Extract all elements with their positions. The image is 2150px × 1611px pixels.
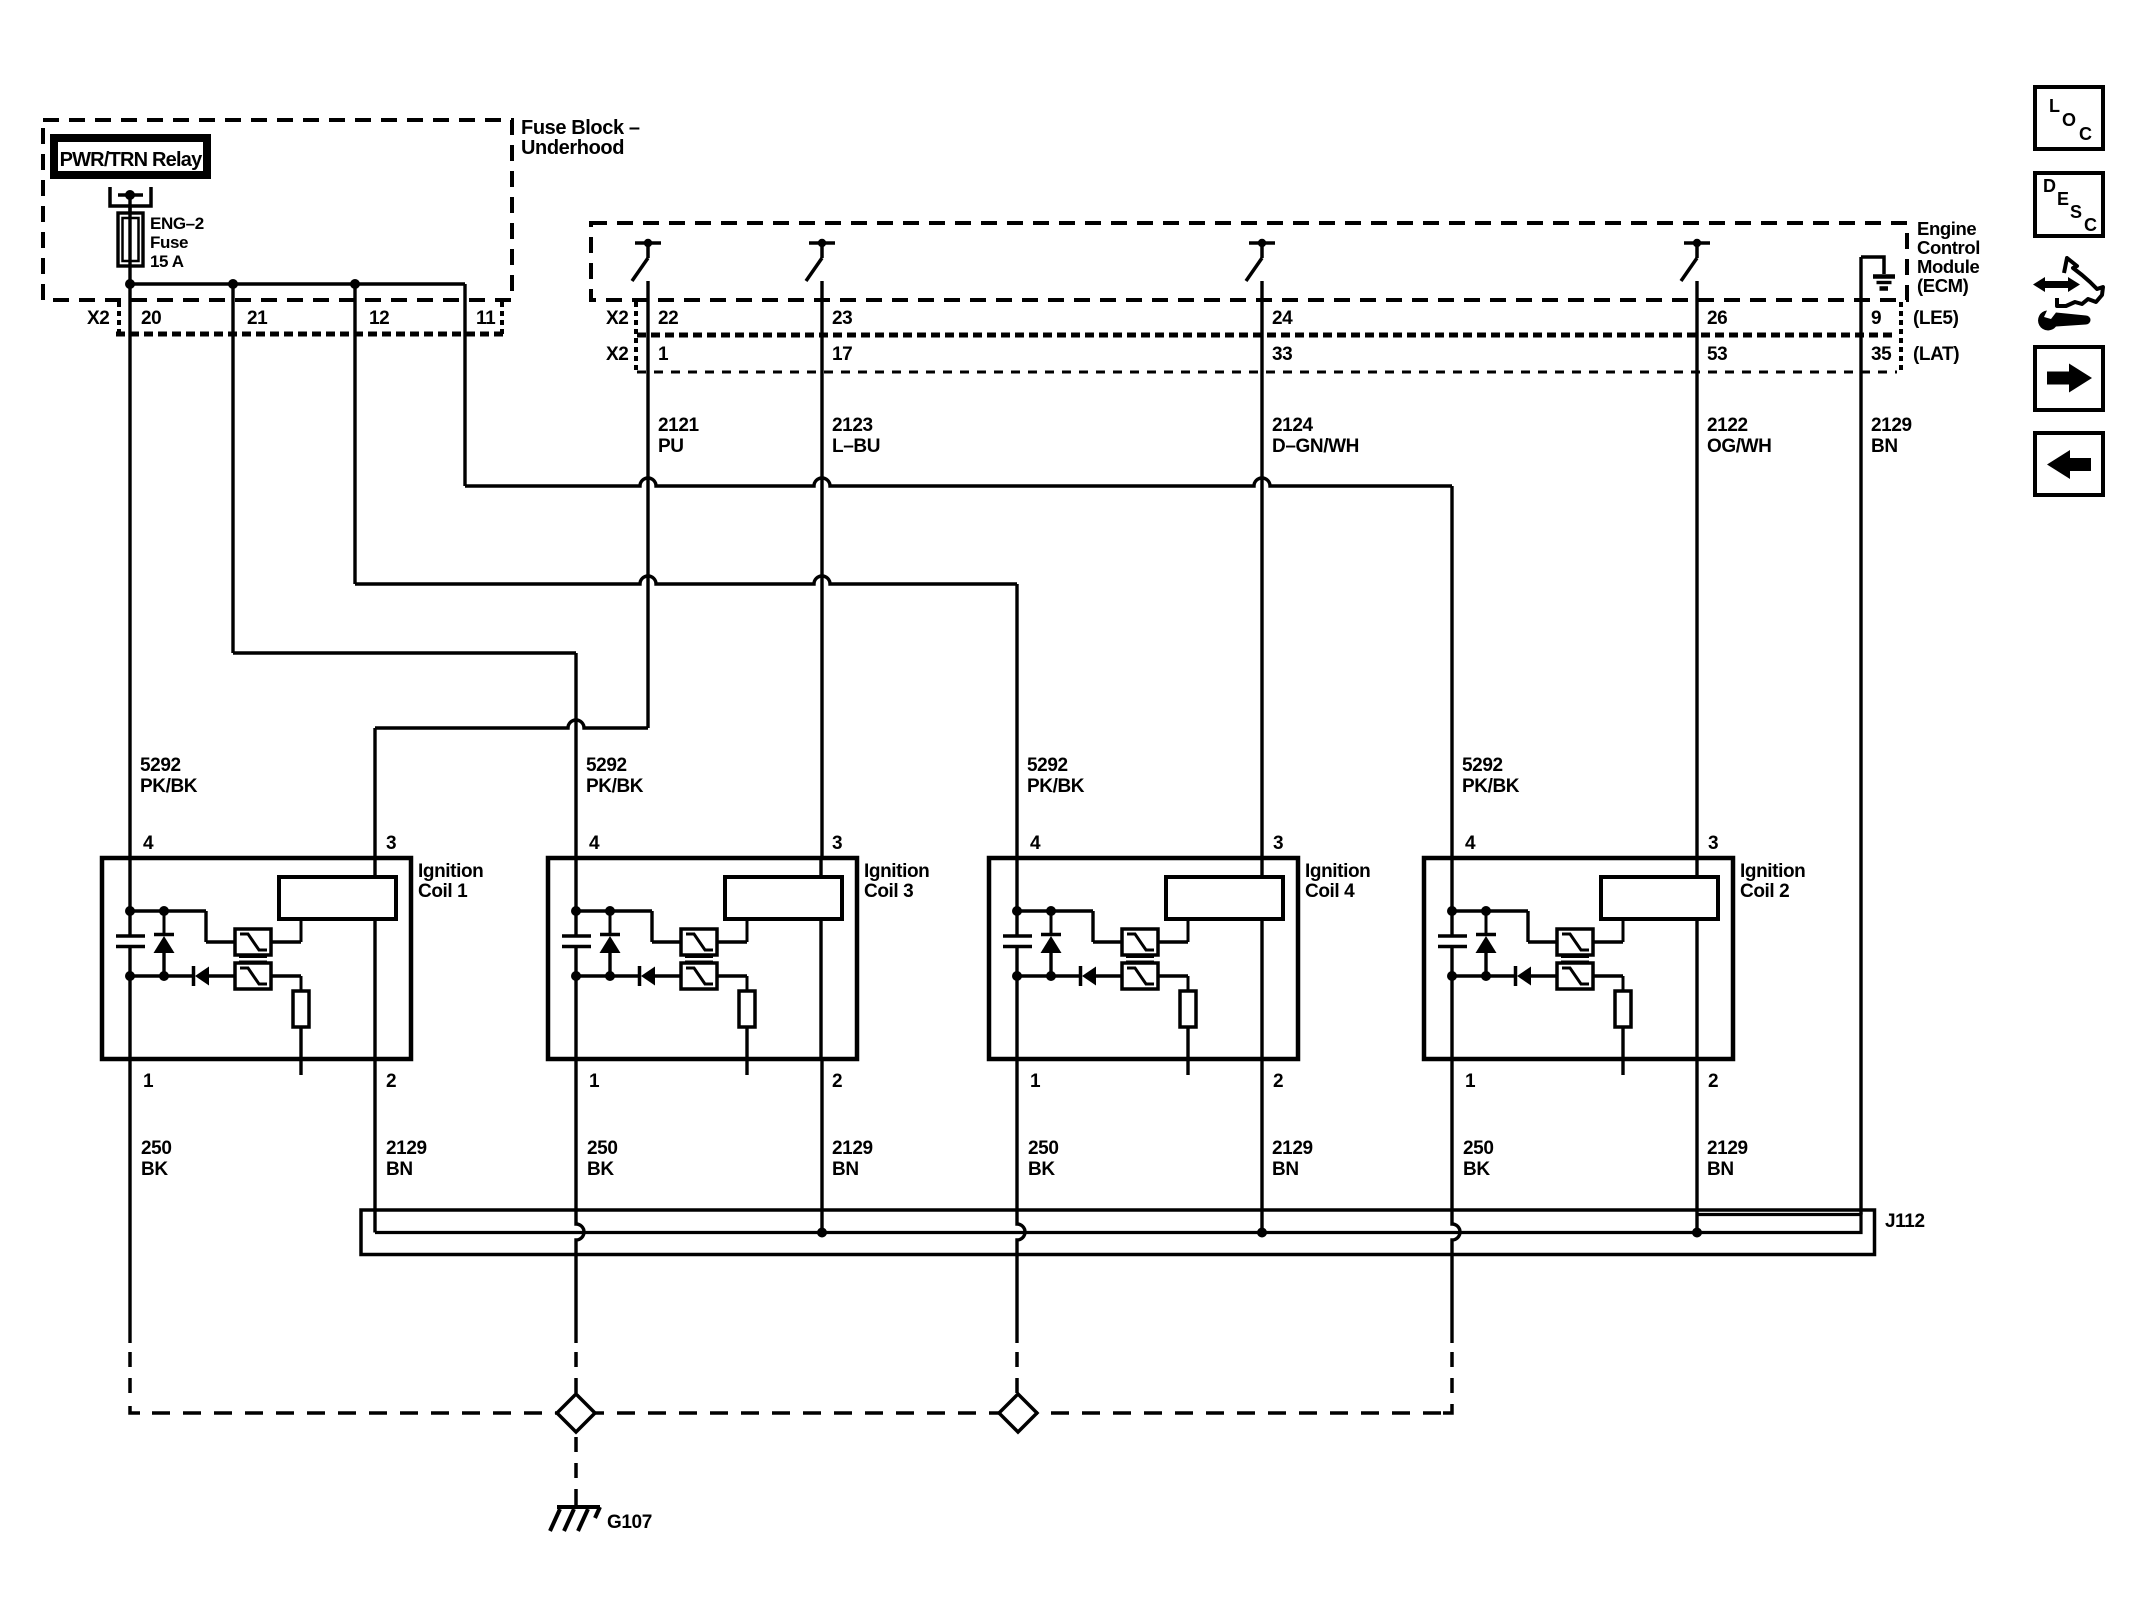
wire: coil 1 pin 1 ground drop	[128, 1059, 131, 1343]
wire 2122 OG/WH from ECM pin 26 to coil 2 pin 3	[1695, 281, 1698, 858]
wire label 5292 PK/BK	[1462, 755, 1520, 797]
svg-text:Ignition: Ignition	[1305, 861, 1370, 882]
svg-text:15 A: 15 A	[150, 252, 184, 271]
svg-text:12: 12	[369, 308, 389, 329]
wire label 2129 BN	[386, 1138, 427, 1180]
primary winding coil 4	[1158, 858, 1283, 942]
svg-text:24: 24	[1272, 308, 1293, 329]
svg-text:2: 2	[386, 1071, 396, 1092]
svg-text:D: D	[2043, 176, 2056, 196]
svg-text:L–BU: L–BU	[832, 436, 880, 457]
connector X2 fuse block row divider	[116, 332, 507, 337]
wire 2124 D-GN/WH from ECM pin 24 to coil 4 pin 3	[1260, 281, 1263, 858]
splice pack J112 inner bus wire	[375, 1215, 1861, 1233]
capacitor C coil 2	[1438, 936, 1467, 976]
svg-text:Ignition: Ignition	[1740, 861, 1805, 882]
svg-text:3: 3	[386, 833, 396, 854]
svg-text:1: 1	[589, 1071, 600, 1092]
svg-text:BK: BK	[1028, 1159, 1055, 1180]
svg-text:BK: BK	[141, 1159, 168, 1180]
svg-text:5292: 5292	[140, 755, 181, 776]
svg-text:Coil 2: Coil 2	[1740, 881, 1789, 902]
svg-text:26: 26	[1707, 308, 1727, 329]
svg-text:C: C	[2084, 215, 2097, 235]
secondary winding output coil 1	[373, 919, 376, 1059]
ECM connector X2 row LAT labels	[606, 344, 1959, 365]
svg-text:D–GN/WH: D–GN/WH	[1272, 436, 1359, 457]
wire: coil 3 pin 2 to splice pack	[820, 1059, 823, 1233]
coupling bars coil 1	[239, 956, 267, 963]
connector X2 separator right	[500, 302, 504, 334]
dashed ground wire from coil 2 pin 1	[1450, 1352, 1454, 1400]
svg-text:(LE5): (LE5)	[1913, 308, 1959, 329]
icon back arrow box	[2035, 433, 2103, 495]
dashed ground corner coil 1	[130, 1406, 140, 1413]
diode D coil 3	[640, 966, 682, 986]
secondary winding output coil 4	[1260, 919, 1263, 1059]
svg-text:2129: 2129	[386, 1138, 427, 1159]
zener diode coil 3	[600, 911, 621, 976]
svg-text:X2: X2	[87, 308, 109, 329]
svg-text:PU: PU	[658, 436, 684, 457]
secondary winding output coil 3	[819, 919, 822, 1059]
opto driver lower coil 4	[1122, 963, 1158, 989]
svg-text:PK/BK: PK/BK	[1027, 776, 1085, 797]
svg-text:5292: 5292	[586, 755, 627, 776]
svg-text:2122: 2122	[1707, 415, 1748, 436]
svg-text:Ignition: Ignition	[418, 861, 483, 882]
ECM connector separator right	[1899, 302, 1903, 372]
svg-text:Module: Module	[1917, 256, 1979, 277]
svg-text:G107: G107	[607, 1512, 652, 1533]
svg-text:35: 35	[1871, 344, 1892, 365]
wire: coil 2 pin 1 ground drop	[1452, 1059, 1460, 1343]
capacitor C coil 1	[116, 936, 145, 976]
wire label 2129 BN	[1707, 1138, 1748, 1180]
wire 2123 L-BU from ECM pin 23 to coil 3 pin 3	[820, 281, 823, 858]
wire: coil 3 pin 1 ground drop	[576, 1059, 584, 1343]
coil 3 internal ground rail	[571, 971, 638, 1059]
icon LOC box	[2035, 87, 2103, 149]
coil 3 internal B+ rail	[571, 858, 652, 936]
wire label 2123 L–BU	[832, 415, 880, 457]
wire: pin 12 drop	[353, 284, 356, 584]
diode D coil 1	[194, 966, 236, 986]
wire label 250 BK	[1028, 1138, 1059, 1180]
fuse block underhood dashed enclosure	[43, 120, 512, 300]
dashed ground corner coil 2	[1443, 1404, 1452, 1413]
svg-text:X2: X2	[606, 308, 628, 329]
svg-text:BK: BK	[1463, 1159, 1490, 1180]
svg-text:O: O	[2062, 110, 2076, 130]
svg-text:J112: J112	[1885, 1211, 1925, 1232]
ECM connector row divider thick	[637, 333, 1897, 338]
dashed ground bus to G107	[152, 1411, 1452, 1415]
wire label 5292 PK/BK	[586, 755, 644, 797]
ignition coil 3 label	[864, 861, 929, 902]
wire: coil 4 pin 2 to splice pack	[1260, 1059, 1263, 1233]
svg-text:BN: BN	[832, 1159, 859, 1180]
fuse ENG-2 15 A	[118, 206, 143, 284]
wire label 250 BK	[141, 1138, 172, 1180]
svg-text:PK/BK: PK/BK	[140, 776, 198, 797]
svg-text:2129: 2129	[1871, 415, 1912, 436]
coil 2 internal ground rail	[1447, 971, 1514, 1059]
opto driver lower coil 3	[681, 963, 717, 989]
svg-text:33: 33	[1272, 344, 1292, 365]
svg-text:2129: 2129	[1707, 1138, 1748, 1159]
coil 4 internal B+ rail	[1012, 858, 1093, 936]
svg-text:Control: Control	[1917, 237, 1980, 258]
wire: coil 4 pin 1 ground drop	[1017, 1059, 1025, 1343]
ECM internal ground symbol at pin 9	[1861, 257, 1895, 289]
node: junction at pin 20	[125, 279, 135, 289]
dashed wire below splice S1	[574, 1437, 578, 1497]
svg-text:C: C	[2079, 124, 2092, 144]
zener diode coil 1	[154, 911, 175, 976]
svg-text:Ignition: Ignition	[864, 861, 929, 882]
wire: feed bus from fuse to pins 20/21/12/11	[130, 282, 465, 285]
capacitor C coil 3	[562, 936, 591, 976]
wire label 2129 BN	[1871, 415, 1912, 457]
svg-text:250: 250	[141, 1138, 172, 1159]
wire label 250 BK	[587, 1138, 618, 1180]
svg-text:3: 3	[1708, 833, 1718, 854]
svg-text:23: 23	[832, 308, 852, 329]
ignition coil 1 label	[418, 861, 483, 902]
svg-text:250: 250	[1028, 1138, 1059, 1159]
ECM driver output pin 22 (switch symbol)	[632, 239, 661, 281]
splice pack J112 outer shell	[361, 1210, 1875, 1255]
svg-text:250: 250	[1463, 1138, 1494, 1159]
wire: pin 21 feed across to coil 3 pin 4	[233, 651, 576, 654]
svg-text:2121: 2121	[658, 415, 700, 436]
wire: pin 12 feed across to coil 4 pin 4	[355, 576, 1017, 584]
wire: coil 1 pin 2 to splice pack	[373, 1059, 376, 1233]
svg-text:4: 4	[1465, 833, 1476, 854]
opto driver lower coil 1	[235, 963, 271, 989]
opto driver lower coil 2	[1557, 963, 1593, 989]
svg-text:4: 4	[143, 833, 154, 854]
svg-text:5292: 5292	[1027, 755, 1068, 776]
svg-text:BK: BK	[587, 1159, 614, 1180]
resistor R coil 2	[1593, 976, 1631, 1075]
ignition coil 1 module box	[102, 858, 411, 1059]
ECM label Engine Control Module	[1917, 218, 1980, 296]
svg-text:ENG–2: ENG–2	[150, 214, 204, 233]
connector X2 separator left	[117, 302, 121, 334]
coil 1 internal ground rail	[125, 971, 192, 1059]
zener diode coil 2	[1476, 911, 1497, 976]
resistor R coil 1	[271, 976, 309, 1075]
relay contact symbol	[110, 187, 151, 213]
opto driver upper coil 1	[206, 911, 271, 955]
node: splice joint coil 3	[817, 1228, 827, 1238]
primary winding coil 3	[717, 858, 842, 942]
svg-text:2129: 2129	[1272, 1138, 1313, 1159]
wire 2121 PU from ECM pin 22	[646, 281, 649, 728]
wire label 2121 PU	[658, 415, 700, 457]
opto driver upper coil 2	[1528, 911, 1593, 955]
svg-text:2124: 2124	[1272, 415, 1314, 436]
fuse value label ENG-2 Fuse 15 A	[150, 214, 204, 271]
ECM connector row divider thin	[637, 371, 1897, 374]
zener diode coil 4	[1041, 911, 1062, 976]
svg-text:20: 20	[141, 308, 161, 329]
wire: pin 11 drop	[463, 284, 466, 486]
svg-text:Coil 4: Coil 4	[1305, 881, 1355, 902]
svg-text:Coil 3: Coil 3	[864, 881, 913, 902]
svg-text:BN: BN	[1871, 436, 1898, 457]
svg-text:2: 2	[1273, 1071, 1283, 1092]
svg-text:17: 17	[832, 344, 852, 365]
svg-text:4: 4	[589, 833, 600, 854]
coupling bars coil 3	[685, 956, 713, 963]
svg-text:OG/WH: OG/WH	[1707, 436, 1772, 457]
wire: pin 20 drop to coil 1 pin 4	[128, 284, 131, 858]
coupling bars coil 2	[1561, 956, 1589, 963]
svg-text:4: 4	[1030, 833, 1041, 854]
svg-text:5292: 5292	[1462, 755, 1503, 776]
svg-text:1: 1	[143, 1071, 154, 1092]
svg-text:11: 11	[476, 308, 496, 329]
icon DESC box	[2035, 173, 2103, 236]
icon forward arrow box	[2035, 347, 2103, 410]
svg-text:2: 2	[832, 1071, 842, 1092]
coupling bars coil 4	[1126, 956, 1154, 963]
dashed ground wire from coil 3 pin 1	[574, 1352, 578, 1394]
svg-text:250: 250	[587, 1138, 618, 1159]
svg-text:21: 21	[247, 308, 268, 329]
ECM connector X2 row LE5 labels	[606, 308, 1959, 329]
svg-text:BN: BN	[1272, 1159, 1299, 1180]
wire label 2124 D–GN/WH	[1272, 415, 1359, 457]
ignition coil 3 module box	[548, 858, 857, 1059]
svg-text:PWR/TRN Relay: PWR/TRN Relay	[60, 149, 204, 171]
wire 2129 BN from ECM pin 9 to splice pack	[1859, 257, 1862, 1215]
coil 2 internal B+ rail	[1447, 858, 1528, 936]
svg-text:3: 3	[1273, 833, 1283, 854]
coil 4 internal ground rail	[1012, 971, 1079, 1059]
wire: coil 2 pin 2 to splice pack	[1695, 1059, 1698, 1233]
wire label 2129 BN	[832, 1138, 873, 1180]
relay K PWR/TRN Relay box	[54, 138, 207, 175]
wire label 2129 BN	[1272, 1138, 1313, 1180]
svg-text:2129: 2129	[832, 1138, 873, 1159]
opto driver upper coil 4	[1093, 911, 1158, 955]
capacitor C coil 4	[1003, 936, 1032, 976]
resistor R coil 3	[717, 976, 755, 1075]
svg-text:S: S	[2070, 202, 2082, 222]
svg-text:1: 1	[658, 344, 669, 365]
ECM driver output pin 24 (switch symbol)	[1246, 239, 1275, 281]
ignition coil 2 label	[1740, 861, 1805, 902]
node: splice joint coil 2	[1692, 1228, 1702, 1238]
svg-text:Coil 1: Coil 1	[418, 881, 468, 902]
svg-text:9: 9	[1871, 308, 1881, 329]
svg-text:L: L	[2049, 96, 2060, 116]
svg-text:3: 3	[832, 833, 842, 854]
ECM dashed enclosure	[591, 223, 1907, 300]
wire label 5292 PK/BK	[1027, 755, 1085, 797]
svg-text:PK/BK: PK/BK	[1462, 776, 1520, 797]
diode D coil 2	[1516, 966, 1558, 986]
svg-text:X2: X2	[606, 344, 628, 365]
svg-text:Fuse Block –: Fuse Block –	[521, 117, 640, 139]
svg-text:22: 22	[658, 308, 678, 329]
node: junction at pin 21	[228, 279, 238, 289]
svg-text:1: 1	[1030, 1071, 1041, 1092]
ignition coil 2 module box	[1424, 858, 1733, 1059]
wire: pin 11 feed across to coil 2 pin 4	[465, 478, 1452, 486]
ground G107 symbol	[550, 1497, 600, 1531]
primary winding coil 2	[1593, 858, 1718, 942]
ECM driver output pin 26 (switch symbol)	[1681, 239, 1710, 281]
svg-text:BN: BN	[386, 1159, 413, 1180]
svg-text:53: 53	[1707, 344, 1727, 365]
svg-text:(LAT): (LAT)	[1913, 344, 1959, 365]
svg-text:2123: 2123	[832, 415, 873, 436]
wire label 250 BK	[1463, 1138, 1494, 1180]
svg-text:(ECM): (ECM)	[1917, 275, 1969, 296]
node: splice joint coil 4	[1257, 1228, 1267, 1238]
node: junction at pin 12	[350, 279, 360, 289]
svg-text:2: 2	[1708, 1071, 1718, 1092]
svg-text:Underhood: Underhood	[521, 137, 624, 159]
opto driver upper coil 3	[652, 911, 717, 955]
splice S1	[557, 1394, 595, 1432]
wire label 2122 OG/WH	[1707, 415, 1772, 457]
resistor R coil 4	[1158, 976, 1196, 1075]
wire label 5292 PK/BK	[140, 755, 198, 797]
coil 1 internal B+ rail	[125, 858, 206, 936]
ignition coil 4 label	[1305, 861, 1370, 902]
svg-text:1: 1	[1465, 1071, 1476, 1092]
svg-text:BN: BN	[1707, 1159, 1734, 1180]
dashed ground wire from coil 1 pin 1	[128, 1352, 132, 1400]
wire 2121 PU across to coil 1 pin 3	[375, 720, 648, 728]
ECM driver output pin 23 (switch symbol)	[806, 239, 835, 281]
ignition coil 4 module box	[989, 858, 1298, 1059]
splice S2	[999, 1394, 1037, 1432]
svg-text:E: E	[2057, 189, 2069, 209]
primary winding coil 1	[271, 858, 396, 942]
svg-text:PK/BK: PK/BK	[586, 776, 644, 797]
svg-text:Fuse: Fuse	[150, 233, 188, 252]
dashed ground wire from coil 4 pin 1	[1015, 1352, 1019, 1394]
secondary winding output coil 2	[1695, 919, 1698, 1059]
ECM connector separator left	[634, 302, 638, 372]
fuse block label	[521, 117, 640, 159]
diode D coil 4	[1081, 966, 1123, 986]
svg-text:Engine: Engine	[1917, 218, 1976, 239]
wire: pin 21 drop	[231, 284, 234, 653]
icon component view (arrows wrench)	[2033, 258, 2103, 330]
